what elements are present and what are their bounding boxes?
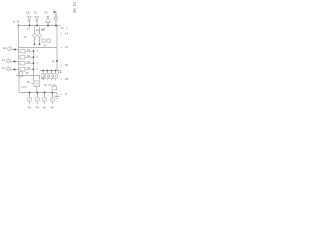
svg-text:c: c xyxy=(37,61,39,65)
svg-text:26: 26 xyxy=(2,66,6,70)
svg-text:53: 53 xyxy=(27,60,31,64)
svg-text:51: 51 xyxy=(27,48,31,52)
source B2 left margin xyxy=(2,58,19,63)
resistor R5 small box xyxy=(42,39,45,42)
pin label 12 right of bus xyxy=(60,26,68,31)
label column right of resistors xyxy=(37,49,39,71)
wire bottom bus right drop xyxy=(56,93,58,97)
svg-text:62: 62 xyxy=(48,83,52,87)
svg-text:+: + xyxy=(60,77,62,81)
svg-text:16: 16 xyxy=(23,35,27,39)
wire top supply bus xyxy=(18,25,61,27)
dots right of mid bus xyxy=(60,70,61,71)
svg-text:44: 44 xyxy=(36,106,40,110)
junction dot Q4 xyxy=(29,92,31,94)
source B1 left margin xyxy=(3,46,19,51)
junction dot bus left xyxy=(18,25,20,27)
wire left rail xyxy=(18,24,20,76)
lamp L3 row under mid bus xyxy=(50,71,53,81)
wire R4 to vertical xyxy=(25,68,34,70)
svg-text:46: 46 xyxy=(43,106,47,110)
wire R3 to vertical xyxy=(25,62,34,64)
resistor R7 dash on left drop xyxy=(21,86,27,88)
sheet label text top-right xyxy=(72,2,77,14)
source B3 left margin xyxy=(2,66,19,71)
svg-text:10: 10 xyxy=(65,45,69,49)
wire R2 to vertical xyxy=(25,56,34,58)
junction dot L4 xyxy=(55,70,57,72)
junction dot Q1 xyxy=(55,25,57,27)
svg-text:34: 34 xyxy=(44,43,48,47)
resistor R3 box xyxy=(20,62,25,65)
junction dot L3 xyxy=(51,70,53,72)
svg-text:48: 48 xyxy=(51,106,55,110)
junction dot Q6 xyxy=(44,92,46,94)
pin label 10 right margin xyxy=(60,45,68,49)
ground GND bar2 xyxy=(56,97,59,99)
svg-text:33: 33 xyxy=(41,28,45,32)
wire bottom bus xyxy=(19,92,57,94)
junction dot Q3 xyxy=(39,43,41,45)
transistor Q1 top with antenna lead xyxy=(54,11,58,26)
oscillator Y1 box xyxy=(34,81,40,87)
resistor R4 box xyxy=(20,68,25,71)
wire stub x39.5 below rail xyxy=(39,76,41,80)
svg-text:+: + xyxy=(60,31,62,35)
junction dot R3 xyxy=(33,62,35,64)
oscillator Y1 cross xyxy=(34,81,40,87)
junction dot D2 xyxy=(36,25,38,27)
junction dot B2 xyxy=(14,61,16,63)
svg-text:18: 18 xyxy=(26,11,30,15)
capacitor C2 small box on rail xyxy=(19,72,22,77)
svg-text:19: 19 xyxy=(34,11,38,15)
wire mid divider xyxy=(19,47,58,49)
ground GND bar1 xyxy=(54,96,59,98)
zener D3 top xyxy=(44,11,50,26)
diode D2 top xyxy=(34,11,39,26)
labels under lamp row xyxy=(44,83,56,87)
resistor R2 box xyxy=(20,56,25,59)
junction dot B1 xyxy=(14,49,16,51)
svg-text:35: 35 xyxy=(52,59,56,63)
svg-text:a: a xyxy=(37,49,39,53)
transistor Q7 bottom row xyxy=(50,93,54,110)
svg-text:+: + xyxy=(60,92,62,96)
svg-text:2: 2 xyxy=(66,27,68,31)
transistor Q5 bottom row xyxy=(35,93,39,110)
junction dot mid bus right xyxy=(56,60,58,62)
lamp L4 row under mid bus xyxy=(54,71,57,81)
resistor R6 small box xyxy=(47,39,50,42)
svg-text:d: d xyxy=(37,67,39,71)
svg-text:96: 96 xyxy=(72,8,77,13)
junction dot R2 xyxy=(33,56,35,58)
svg-text:36: 36 xyxy=(65,63,69,67)
svg-text:38: 38 xyxy=(65,77,69,81)
pin label 38 right margin xyxy=(60,77,68,81)
svg-text:17: 17 xyxy=(27,27,31,31)
svg-text:24: 24 xyxy=(2,58,6,62)
svg-text:+: + xyxy=(60,45,62,49)
wire left drop to bottom bus xyxy=(18,76,20,93)
transistor Q2 in block xyxy=(33,27,37,45)
wire right stub below mid bus xyxy=(58,71,60,75)
pin label 14 right margin xyxy=(60,31,68,35)
junction dot B3 xyxy=(14,69,16,71)
transistor Q3 in block xyxy=(38,27,42,45)
svg-text:46: 46 xyxy=(26,71,30,75)
wire R1 to vertical xyxy=(25,50,34,52)
junction dot Q7 xyxy=(51,92,53,94)
wire lower-left rail bottom xyxy=(16,75,40,77)
transistor Q4 bottom row xyxy=(27,93,31,110)
resistor R1 box xyxy=(20,50,25,53)
junction dot R4 xyxy=(33,68,35,70)
svg-text:20: 20 xyxy=(44,11,48,15)
svg-text:74: 74 xyxy=(72,2,77,7)
wire right rail xyxy=(56,26,58,71)
svg-text:52: 52 xyxy=(27,54,31,58)
resistor R8 box above bottom bus xyxy=(52,87,57,90)
svg-text:+: + xyxy=(60,63,62,67)
pin label 36 right margin xyxy=(60,63,68,67)
junction dot Q5 xyxy=(36,92,38,94)
wire right mid bus xyxy=(40,70,60,72)
junction dot L2 xyxy=(46,70,48,72)
svg-text:54: 54 xyxy=(27,66,31,70)
svg-text:b: b xyxy=(37,55,39,59)
lamp L2 row under mid bus xyxy=(46,71,49,81)
svg-text:31: 31 xyxy=(36,28,40,32)
svg-text:40: 40 xyxy=(41,76,45,80)
junction dot R1 xyxy=(33,50,35,52)
wire Y1 lead left xyxy=(31,83,34,85)
junction dot Q2 xyxy=(34,43,36,45)
svg-text:8: 8 xyxy=(65,92,67,96)
svg-text:14: 14 xyxy=(65,31,69,35)
svg-text:22: 22 xyxy=(3,46,7,50)
junction dot D1 xyxy=(28,25,30,27)
wire Y1 down to bottom bus xyxy=(36,86,38,92)
junction dot D3 xyxy=(47,25,49,27)
node tick at bus start xyxy=(17,20,19,24)
svg-text:12: 12 xyxy=(60,26,64,30)
svg-text:61: 61 xyxy=(44,83,48,87)
lamp L1 row under mid bus xyxy=(42,71,45,81)
wire internal vertical xyxy=(33,49,35,76)
svg-text:11: 11 xyxy=(12,20,15,24)
junction dot L1 xyxy=(42,70,44,72)
svg-text:50: 50 xyxy=(27,80,31,84)
wire stub x33.5 below left rail bottom xyxy=(33,76,35,81)
svg-text:42: 42 xyxy=(28,106,32,110)
transistor Q6 bottom row xyxy=(42,93,46,110)
pin label 8 right margin bottom xyxy=(60,92,67,96)
diode D1 top xyxy=(26,11,31,26)
